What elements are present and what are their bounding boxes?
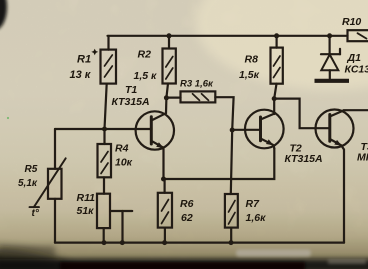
node junction emitter/R6 xyxy=(161,177,166,182)
svg-text:R7: R7 xyxy=(246,198,261,210)
svg-text:Т1: Т1 xyxy=(125,84,137,96)
svg-text:1,6к: 1,6к xyxy=(246,212,267,224)
svg-text:51к: 51к xyxy=(77,205,95,217)
thermistor R5 xyxy=(30,129,66,243)
node junction top rail D1 xyxy=(327,33,332,38)
wire T2 collector to T3 base xyxy=(274,99,330,129)
node junction R8/T2 collector xyxy=(272,96,277,101)
svg-text:62: 62 xyxy=(181,212,193,224)
svg-text:R3 1,6к: R3 1,6к xyxy=(180,79,214,90)
resistor R6 xyxy=(158,179,172,243)
wire base T1 xyxy=(55,128,151,130)
svg-text:R8: R8 xyxy=(245,54,259,66)
svg-text:1,5 к: 1,5 к xyxy=(134,70,158,82)
transistor T2 xyxy=(245,110,284,149)
resistor R10 xyxy=(348,30,368,41)
wire top supply rail xyxy=(108,35,348,37)
svg-text:Д1: Д1 xyxy=(347,52,362,64)
node junction R7 bottom xyxy=(229,240,234,245)
resistor R11 trimmer xyxy=(97,194,132,243)
node junction R2/R3/T1 collector xyxy=(164,95,169,100)
svg-text:5,1к: 5,1к xyxy=(18,178,38,189)
svg-text:R6: R6 xyxy=(180,198,194,210)
resistor R1 xyxy=(101,36,117,129)
wire T2 collector xyxy=(273,99,275,114)
svg-text:КС133: КС133 xyxy=(345,64,368,76)
svg-text:КТ315А: КТ315А xyxy=(112,96,150,108)
node junction R11 bottom xyxy=(102,240,107,245)
node junction R1/R4/base xyxy=(102,127,107,132)
wire emitter T1-T2 xyxy=(164,149,275,180)
svg-text:R2: R2 xyxy=(138,49,152,61)
svg-text:R5: R5 xyxy=(25,164,38,175)
svg-text:1,5к: 1,5к xyxy=(239,69,260,81)
resistor R2 xyxy=(163,36,176,98)
svg-text:10к: 10к xyxy=(115,157,133,169)
svg-text:t°: t° xyxy=(32,208,40,219)
transistor T3 xyxy=(316,110,368,243)
transistor T1 xyxy=(136,98,174,179)
svg-text:R1: R1 xyxy=(77,54,91,66)
node junction top rail R2 xyxy=(167,33,172,38)
svg-text:13 к: 13 к xyxy=(70,69,92,81)
resistor R3 xyxy=(166,91,233,130)
svg-text:МП4: МП4 xyxy=(357,152,368,164)
resistor R4 xyxy=(98,129,112,194)
wire bottom rail xyxy=(55,242,344,244)
wire T2 base xyxy=(232,129,260,131)
green speck artifact xyxy=(7,117,9,119)
svg-text:R11: R11 xyxy=(77,192,96,204)
svg-text:R4: R4 xyxy=(115,143,129,155)
svg-text:КТ315А: КТ315А xyxy=(285,153,323,165)
node junction R3/R7/T2 base xyxy=(230,128,235,133)
node junction top rail R8 xyxy=(274,33,279,38)
svg-text:R10: R10 xyxy=(342,16,361,28)
ground bar D1 anode xyxy=(315,79,350,83)
resistor R8 xyxy=(271,36,283,99)
node junction trimmer tap bottom xyxy=(120,240,125,245)
node junction R6 bottom xyxy=(162,240,167,245)
resistor R7 xyxy=(225,130,238,243)
zener diode D1 xyxy=(321,36,340,79)
